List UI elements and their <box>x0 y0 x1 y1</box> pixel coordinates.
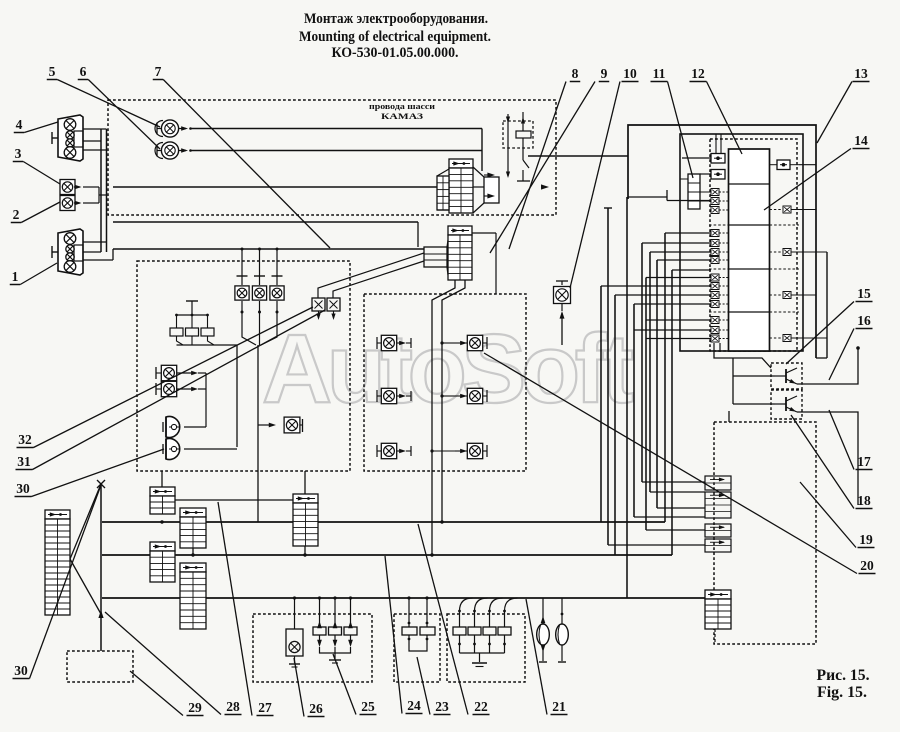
svg-text:30: 30 <box>16 481 30 496</box>
svg-text:провода шасси: провода шасси <box>369 102 435 111</box>
svg-text:11: 11 <box>653 66 666 81</box>
svg-text:13: 13 <box>854 66 868 81</box>
svg-text:7: 7 <box>155 64 162 79</box>
svg-text:28: 28 <box>226 699 240 714</box>
svg-text:19: 19 <box>859 532 873 547</box>
svg-text:Fig. 15.: Fig. 15. <box>817 684 867 701</box>
svg-text:32: 32 <box>18 432 32 447</box>
svg-text:23: 23 <box>435 699 449 714</box>
svg-text:Mounting of electrical equipme: Mounting of electrical equipment. <box>299 29 491 45</box>
svg-text:14: 14 <box>854 133 868 148</box>
svg-text:29: 29 <box>188 700 202 715</box>
svg-text:1: 1 <box>12 269 19 284</box>
svg-text:КО-530-01.05.00.000.: КО-530-01.05.00.000. <box>332 45 459 61</box>
svg-text:12: 12 <box>691 66 705 81</box>
svg-text:4: 4 <box>16 117 23 132</box>
svg-text:Монтаж электрооборудования.: Монтаж электрооборудования. <box>304 11 488 27</box>
svg-text:9: 9 <box>601 66 608 81</box>
svg-text:2: 2 <box>13 207 20 222</box>
svg-text:10: 10 <box>623 66 637 81</box>
svg-text:31: 31 <box>17 454 31 469</box>
svg-text:24: 24 <box>407 698 421 713</box>
svg-text:20: 20 <box>860 558 874 573</box>
svg-text:Рис. 15.: Рис. 15. <box>817 667 870 684</box>
svg-text:16: 16 <box>857 313 871 328</box>
svg-text:8: 8 <box>572 66 579 81</box>
svg-text:30: 30 <box>14 663 28 678</box>
svg-text:25: 25 <box>361 699 375 714</box>
svg-text:AutoSoft: AutoSoft <box>262 314 634 423</box>
svg-text:КАМАЗ: КАМАЗ <box>381 112 423 121</box>
svg-text:27: 27 <box>258 700 272 715</box>
svg-text:5: 5 <box>49 64 56 79</box>
svg-text:18: 18 <box>857 493 871 508</box>
svg-text:21: 21 <box>552 699 566 714</box>
svg-text:17: 17 <box>857 454 871 469</box>
svg-text:6: 6 <box>80 64 87 79</box>
svg-text:15: 15 <box>857 286 871 301</box>
svg-text:3: 3 <box>15 146 22 161</box>
svg-text:26: 26 <box>309 701 323 716</box>
svg-text:22: 22 <box>474 699 488 714</box>
